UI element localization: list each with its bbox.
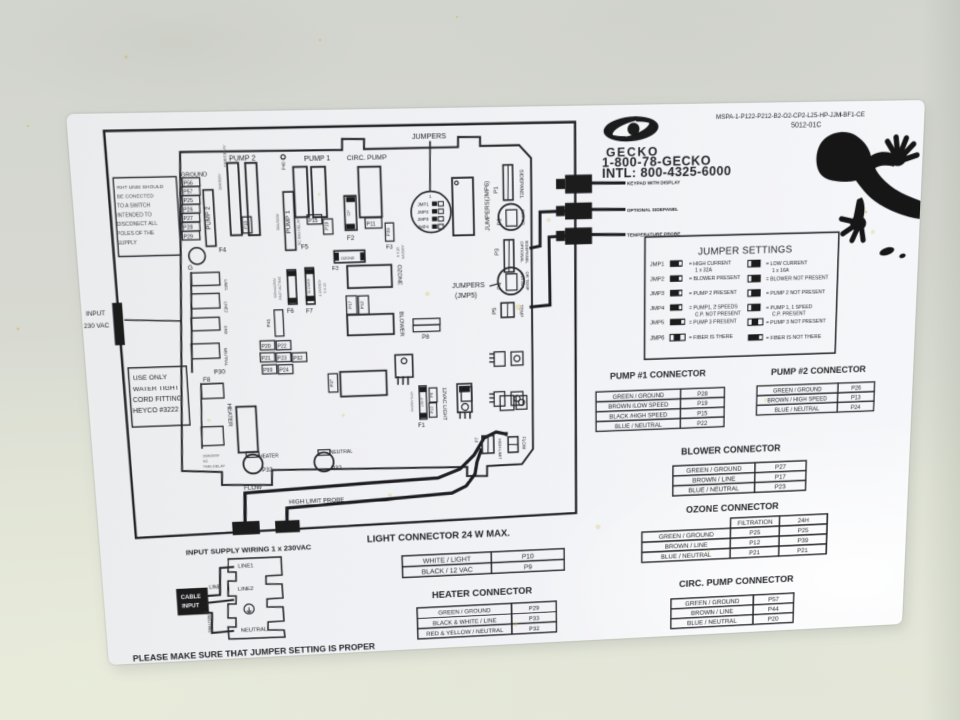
svg-text:JMP3: JMP3	[650, 291, 665, 298]
svg-text:JMP4: JMP4	[417, 225, 429, 231]
ground lug G	[188, 248, 205, 265]
svg-text:4.2A/250V: 4.2A/250V	[318, 279, 322, 296]
svg-text:LIGHT: LIGHT	[420, 396, 424, 407]
svg-text:= PUMP 3 PRESENT: = PUMP 3 PRESENT	[689, 319, 737, 326]
svg-text:5A/250V: 5A/250V	[401, 245, 405, 259]
P8 connector	[413, 318, 440, 325]
svg-text:JMP1: JMP1	[417, 202, 429, 208]
svg-text:OZONE: OZONE	[341, 255, 355, 260]
heater stud P33	[243, 454, 263, 474]
svg-text:P57: P57	[768, 595, 779, 603]
P18 box	[242, 217, 252, 233]
svg-text:= PUMP 2 NOT PRESENT: = PUMP 2 NOT PRESENT	[766, 290, 826, 297]
svg-text:3A/250V 5x20: 3A/250V 5x20	[410, 392, 414, 412]
svg-text:FILTRATION: FILTRATION	[737, 518, 772, 527]
terminal P27	[182, 213, 200, 222]
svg-text:PUMP 1: PUMP 1	[285, 210, 293, 233]
svg-text:SIDEPANEL: SIDEPANEL	[524, 240, 529, 264]
svg-text:PUMP 2: PUMP 2	[205, 206, 213, 230]
svg-text:= PUMP 2 PRESENT: = PUMP 2 PRESENT	[689, 290, 737, 297]
svg-text:HEATER CONNECTOR: HEATER CONNECTOR	[432, 586, 533, 601]
use-only note box	[128, 366, 190, 427]
svg-text:12VAC LIGHT: 12VAC LIGHT	[441, 387, 447, 421]
svg-text:P24: P24	[851, 404, 861, 410]
svg-text:P41: P41	[266, 319, 272, 328]
svg-text:1 x 32A: 1 x 32A	[695, 268, 712, 274]
terminal tab NEUTRAL	[191, 343, 220, 359]
svg-text:P30: P30	[214, 369, 226, 376]
temp probe wire to P5	[530, 236, 565, 307]
svg-text:P33: P33	[262, 467, 273, 474]
svg-text:P20: P20	[261, 344, 270, 350]
svg-text:P9: P9	[524, 563, 532, 571]
svg-text:PUMP 1: PUMP 1	[304, 154, 331, 163]
rheostat note box	[113, 177, 181, 257]
line2 wire	[207, 600, 233, 603]
gecko lizard silhouette	[813, 131, 923, 262]
P5 strip	[501, 303, 514, 318]
svg-text:P4: P4	[496, 282, 502, 290]
svg-text:P23: P23	[774, 482, 785, 490]
ozone connector table	[642, 514, 828, 563]
svg-text:KEYPAD WITH DISPLAY: KEYPAD WITH DISPLAY	[627, 180, 681, 187]
svg-text:5 X 20: 5 X 20	[396, 247, 400, 257]
ozone fuse	[334, 250, 365, 263]
svg-text:P29: P29	[183, 234, 193, 240]
terminal P28	[182, 222, 200, 231]
svg-text:5 X 20: 5 X 20	[323, 283, 327, 293]
svg-text:INPUT: INPUT	[86, 311, 106, 318]
temperature probe connector	[565, 227, 592, 244]
svg-text:F4: F4	[219, 247, 227, 254]
optional sidepanel connector	[565, 202, 592, 219]
svg-text:P57: P57	[183, 190, 193, 196]
svg-text:BLOWER CONNECTOR: BLOWER CONNECTOR	[681, 443, 781, 457]
svg-text:P22: P22	[697, 420, 708, 427]
svg-text:NEUTRAL: NEUTRAL	[330, 450, 353, 456]
svg-text:P92: P92	[293, 356, 302, 362]
svg-text:P17: P17	[775, 473, 786, 481]
svg-text:P12: P12	[749, 538, 760, 546]
svg-text:JUMPERS: JUMPERS	[452, 281, 485, 290]
svg-text:HEATER: HEATER	[226, 403, 234, 427]
jumper settings box	[645, 232, 839, 359]
svg-text:P15: P15	[308, 218, 318, 224]
svg-text:P26: P26	[183, 207, 193, 213]
Gecko logo	[603, 114, 659, 143]
pump2 connector table	[756, 382, 874, 415]
P22 box	[276, 341, 291, 350]
P4 circle	[498, 267, 525, 295]
svg-text:P32: P32	[331, 465, 342, 472]
svg-text:= HIGH CURRENT: = HIGH CURRENT	[689, 261, 732, 268]
pump1 connector table	[596, 387, 725, 431]
pump2 fuse body	[203, 190, 216, 246]
svg-text:P99: P99	[263, 368, 272, 374]
svg-text:WATER: WATER	[520, 274, 525, 289]
svg-text:CABLE: CABLE	[181, 594, 202, 601]
terminal P57	[182, 187, 200, 196]
opto 4	[500, 395, 514, 410]
aux relay	[340, 370, 387, 396]
P41 box	[274, 310, 284, 337]
svg-text:P8: P8	[422, 334, 430, 341]
svg-text:P18: P18	[243, 221, 249, 230]
svg-text:P33: P33	[529, 616, 540, 622]
P6 circle	[498, 204, 524, 231]
opto 3	[461, 387, 472, 402]
svg-text:= PUMP 3 NOT PRESENT: = PUMP 3 NOT PRESENT	[766, 319, 826, 326]
svg-text:P27: P27	[775, 463, 786, 471]
ground symbol circle	[244, 604, 255, 614]
svg-text:LINE2: LINE2	[223, 301, 228, 313]
svg-text:JMP1: JMP1	[650, 261, 665, 268]
svg-text:JUMPERS(JMP6): JUMPERS(JMP6)	[484, 181, 491, 231]
svg-text:OPTIONAL SIDEPANEL: OPTIONAL SIDEPANEL	[627, 207, 679, 214]
svg-text:F1: F1	[418, 422, 425, 429]
svg-text:P28: P28	[183, 225, 193, 231]
svg-text:P21: P21	[797, 546, 808, 554]
terminal tab LINE2	[191, 293, 220, 309]
svg-text:JUMPER SETTINGS: JUMPER SETTINGS	[698, 244, 792, 257]
P20 box	[260, 341, 275, 350]
svg-text:230 VAC: 230 VAC	[84, 323, 110, 330]
opto 2	[494, 392, 505, 407]
svg-text:USE ONLY: USE ONLY	[133, 372, 168, 381]
F9 box	[429, 388, 437, 402]
svg-text:F7: F7	[306, 308, 314, 315]
svg-text:30A/300V: 30A/300V	[275, 213, 281, 230]
temperature probe connector lead	[592, 234, 624, 236]
svg-text:BROWN / LINE: BROWN / LINE	[665, 541, 708, 551]
svg-text:30A/300V: 30A/300V	[217, 173, 223, 190]
heater fuse spine	[198, 384, 205, 448]
svg-text:P10: P10	[429, 406, 434, 414]
terminal P26	[182, 204, 200, 213]
svg-text:RHT UNIS SHOULD: RHT UNIS SHOULD	[117, 184, 164, 191]
svg-text:P29: P29	[529, 605, 540, 611]
svg-text:P39: P39	[386, 228, 392, 237]
svg-text:P44: P44	[768, 605, 779, 613]
heater fuse tab B	[201, 426, 224, 446]
svg-text:SC: SC	[203, 459, 209, 464]
svg-text:P56: P56	[183, 181, 193, 187]
P2 connector	[508, 437, 518, 453]
svg-text:P40: P40	[281, 162, 287, 171]
svg-text:P39: P39	[797, 536, 808, 544]
svg-text:P21: P21	[261, 356, 270, 362]
svg-text:(JMP5): (JMP5)	[455, 291, 478, 300]
svg-text:P12: P12	[360, 301, 366, 309]
svg-text:= FIBER IS THERE: = FIBER IS THERE	[689, 334, 733, 341]
svg-text:P25: P25	[798, 526, 809, 534]
svg-text:DISCONECT ALL: DISCONECT ALL	[117, 221, 158, 228]
svg-text:LINE1: LINE1	[238, 563, 254, 570]
svg-text:F3: F3	[332, 265, 340, 272]
svg-text:JUMPERS: JUMPERS	[412, 132, 446, 141]
svg-text:MSPA-1-P122-P212-B2-O2-CP2-L25: MSPA-1-P122-P212-B2-O2-CP2-L25-HP-JJM-BF…	[716, 112, 865, 121]
svg-text:INTL: 800-4325-6000: INTL: 800-4325-6000	[602, 164, 731, 182]
jumpers pointer line	[429, 142, 432, 191]
svg-text:P22: P22	[277, 344, 286, 350]
svg-text:F8: F8	[203, 377, 211, 384]
P15 box	[307, 215, 322, 225]
svg-text:LIGHT CONNECTOR 24 W MAX.: LIGHT CONNECTOR 24 W MAX.	[367, 528, 510, 545]
svg-text:P10: P10	[522, 552, 535, 560]
svg-text:LINE2: LINE2	[238, 586, 254, 593]
svg-text:JMP5: JMP5	[650, 320, 665, 327]
P16 box	[323, 219, 333, 234]
P10 box	[429, 403, 437, 418]
svg-text:FAST-ACTING: FAST-ACTING	[278, 276, 283, 299]
cable input block	[176, 588, 209, 616]
svg-text:= FIBER IS NOT THERE: = FIBER IS NOT THERE	[766, 334, 821, 341]
white sticker	[66, 100, 925, 665]
high limit wire	[284, 450, 482, 521]
P39 box	[385, 223, 394, 241]
svg-text:BLOWER: BLOWER	[398, 311, 405, 337]
heater relay	[236, 406, 258, 452]
F7 fuse	[305, 268, 315, 304]
svg-text:P24: P24	[279, 368, 289, 374]
svg-text:CORD FITTING: CORD FITTING	[133, 394, 183, 404]
wire frame border / keypad bus	[104, 122, 577, 538]
P3 strip	[504, 240, 514, 272]
svg-text:P1: P1	[494, 186, 500, 194]
svg-text:500mA/250V: 500mA/250V	[273, 277, 278, 298]
neutral wire	[204, 611, 233, 634]
svg-text:GND: GND	[223, 326, 228, 335]
svg-text:JMP2: JMP2	[417, 209, 429, 215]
svg-text:PUMP 2: PUMP 2	[229, 154, 256, 163]
svg-text:TIME/DELAY: TIME/DELAY	[222, 144, 228, 167]
svg-text:TIME-DELAY: TIME-DELAY	[203, 463, 226, 468]
dip switch circle JMP1-4	[411, 191, 452, 233]
terminal comb spine	[186, 273, 197, 372]
IC chip	[452, 178, 474, 236]
blower connector table	[673, 461, 807, 496]
sidepanel wire to P3	[531, 211, 566, 248]
P7 connector	[482, 436, 494, 454]
svg-text:SIDEPANEL: SIDEPANEL	[518, 169, 524, 198]
svg-text:F9: F9	[429, 392, 434, 397]
F2 fuse	[344, 196, 357, 231]
svg-text:P28: P28	[697, 391, 708, 398]
svg-text:JMP4: JMP4	[650, 305, 665, 312]
P23 box	[276, 353, 291, 362]
pump2 relay B	[245, 163, 260, 236]
svg-text:= BLOWER NOT PRESENT: = BLOWER NOT PRESENT	[766, 275, 829, 282]
svg-text:P13: P13	[851, 395, 861, 401]
svg-text:NEUTRAL: NEUTRAL	[223, 348, 229, 367]
flow probe plug	[232, 521, 260, 535]
svg-text:P37: P37	[329, 379, 335, 387]
pump1 fuse body	[283, 192, 296, 251]
svg-text:= BLOWER PRESENT: = BLOWER PRESENT	[689, 275, 741, 282]
P21 box	[260, 353, 275, 362]
svg-text:AUX I/O: AUX I/O	[520, 209, 525, 225]
keypad connector	[565, 174, 592, 193]
terminal P56	[182, 178, 200, 187]
svg-text:F5: F5	[301, 244, 309, 251]
optional sidepanel connector lead	[592, 209, 624, 210]
circ pump relay	[358, 167, 382, 218]
svg-text:P6: P6	[496, 218, 502, 226]
opto 1	[494, 352, 505, 367]
svg-text:JMP3: JMP3	[417, 217, 429, 223]
svg-text:G: G	[188, 265, 193, 272]
svg-text:5012-01C: 5012-01C	[791, 120, 822, 129]
svg-text:OPTIONAL: OPTIONAL	[519, 241, 524, 263]
svg-text:INPUT: INPUT	[182, 603, 200, 610]
P12 box	[358, 296, 369, 315]
input terminal block outline	[224, 557, 285, 640]
svg-text:P15: P15	[697, 411, 708, 418]
P24 box	[278, 365, 293, 375]
svg-text:PUMP #2 CONNECTOR: PUMP #2 CONNECTOR	[771, 365, 867, 378]
background specks	[17, 16, 868, 331]
svg-text:C.P. NOT PRESENT: C.P. NOT PRESENT	[695, 311, 741, 318]
heater connector table	[417, 601, 557, 639]
pump2 relay A	[227, 163, 242, 235]
pump1 relay B	[311, 167, 327, 218]
P1 strip	[503, 165, 513, 200]
svg-text:WATER TIGHT: WATER TIGHT	[133, 383, 180, 393]
svg-text:24H: 24H	[798, 516, 809, 524]
regulator TO-220	[395, 354, 413, 377]
svg-text:LINE1: LINE1	[223, 280, 228, 292]
svg-text:BE CONECTED: BE CONECTED	[117, 194, 154, 201]
svg-text:P2: P2	[504, 431, 509, 437]
svg-text:P27: P27	[183, 216, 193, 222]
svg-text:C.P. PRESENT: C.P. PRESENT	[772, 311, 806, 317]
svg-text:26A/300V: 26A/300V	[203, 453, 220, 458]
pump1 relay A	[293, 167, 309, 218]
svg-text:BLOWER: BLOWER	[307, 278, 311, 293]
TO-220 2	[457, 384, 472, 413]
neutral stud P32	[314, 452, 334, 472]
svg-text:JMP2: JMP2	[650, 276, 665, 283]
svg-text:HEATER: HEATER	[259, 454, 279, 460]
svg-text:P26: P26	[851, 385, 861, 391]
svg-text:NEUTRAL: NEUTRAL	[241, 626, 268, 633]
board outline	[161, 136, 535, 489]
P92 box	[292, 353, 307, 362]
svg-text:CIRC. PUMP CONNECTOR: CIRC. PUMP CONNECTOR	[679, 574, 794, 590]
svg-text:P3: P3	[494, 248, 500, 256]
svg-text:P17: P17	[348, 301, 354, 309]
svg-text:F6: F6	[287, 308, 295, 315]
svg-text:CP: CP	[346, 210, 351, 216]
svg-text:1 x 16A: 1 x 16A	[772, 268, 789, 274]
input fuse block	[112, 303, 125, 346]
svg-text:= LOW CURRENT: = LOW CURRENT	[766, 261, 808, 268]
svg-text:SUPPLY: SUPPLY	[117, 240, 138, 246]
blower relay	[347, 314, 394, 336]
svg-text:OR TEMP: OR TEMP	[525, 271, 530, 290]
paper stains	[193, 181, 876, 642]
F6 fuse	[287, 270, 297, 304]
high limit probe plug	[275, 520, 300, 533]
svg-text:P20: P20	[768, 615, 779, 623]
light connector table	[402, 549, 564, 578]
svg-text:= PUMP 1, 1 SPEED: = PUMP 1, 1 SPEED	[766, 305, 812, 312]
sticker shadow	[70, 106, 929, 671]
svg-text:TO A SWITCH: TO A SWITCH	[117, 203, 151, 210]
keypad connector lead	[592, 182, 624, 183]
svg-text:F3: F3	[386, 244, 393, 251]
svg-text:P25: P25	[749, 528, 760, 536]
svg-text:INPUT SUPPLY WIRING 1 x 230VAC: INPUT SUPPLY WIRING 1 x 230VAC	[186, 542, 312, 556]
F1 light fuse	[419, 386, 427, 420]
svg-text:JMP6: JMP6	[650, 335, 665, 342]
P99 box	[262, 365, 277, 374]
svg-text:1: 1	[429, 194, 432, 199]
heater fuse tab A	[201, 383, 224, 399]
svg-text:BROWN / LINE: BROWN / LINE	[692, 475, 735, 485]
svg-text:OZONE: OZONE	[396, 265, 403, 286]
svg-text:P21: P21	[749, 548, 760, 556]
svg-text:PUMP #1 CONNECTOR: PUMP #1 CONNECTOR	[610, 369, 707, 382]
svg-text:FLOW: FLOW	[521, 437, 526, 450]
svg-text:P19: P19	[697, 401, 708, 408]
circ pump connector table	[671, 593, 794, 629]
svg-text:HEYCO #3222: HEYCO #3222	[133, 405, 179, 415]
svg-text:NEUTRAL: NEUTRAL	[207, 615, 213, 634]
P11 box	[365, 218, 382, 229]
svg-text:F2: F2	[347, 235, 355, 242]
svg-text:INTENDED TO: INTENDED TO	[117, 212, 152, 219]
ozone transformer	[347, 265, 392, 288]
P17 box	[346, 296, 357, 315]
svg-text:CIRC. PUMP: CIRC. PUMP	[347, 152, 387, 161]
P37 box	[328, 374, 338, 393]
svg-text:P7: P7	[474, 437, 479, 443]
terminal tab GND	[191, 317, 220, 331]
terminal P25	[182, 195, 200, 204]
line1 wire	[205, 567, 234, 596]
svg-text:OZONE CONNECTOR: OZONE CONNECTOR	[686, 501, 779, 515]
wire input to board	[125, 318, 180, 322]
svg-text:P25: P25	[183, 199, 193, 205]
flow wire	[241, 432, 508, 522]
svg-text:P23: P23	[277, 356, 286, 362]
svg-text:POLES OF THE: POLES OF THE	[117, 231, 155, 238]
svg-text:SC 9ms-DELAY: SC 9ms-DELAY	[296, 218, 302, 245]
svg-text:P5: P5	[491, 307, 497, 315]
svg-text:P32: P32	[529, 626, 540, 632]
svg-text:P19: P19	[324, 222, 330, 231]
terminal tab LINE1	[191, 272, 220, 286]
terminal P29	[182, 231, 200, 240]
svg-text:HIGH-LIMIT: HIGH-LIMIT	[497, 438, 502, 459]
svg-text:P11: P11	[366, 222, 375, 228]
